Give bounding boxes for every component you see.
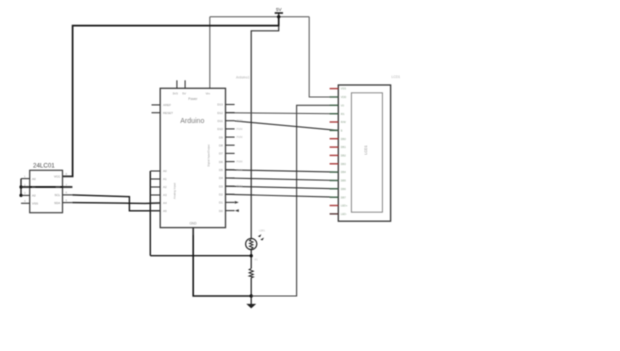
svg-text:VSS: VSS	[341, 87, 346, 91]
wire Arduino D3 to LCD DB6	[226, 186, 339, 189]
svg-text:DB7: DB7	[341, 195, 347, 199]
svg-text:SCL: SCL	[54, 193, 60, 197]
svg-text:A2: A2	[32, 194, 36, 198]
power symbol 5V	[275, 7, 283, 17]
Arduino U2	[160, 88, 225, 227]
svg-text:Arduino1: Arduino1	[236, 76, 250, 80]
resistor R1	[249, 256, 253, 296]
Arduino PWM marks	[237, 120, 243, 189]
LCD pin 15 LED+ (unrouted)	[330, 205, 339, 207]
wire Arduino D11 to LCD E	[235, 121, 339, 130]
svg-text:DB4: DB4	[341, 170, 347, 174]
svg-text:A1: A1	[32, 185, 36, 189]
EEPROM pin A1	[21, 186, 30, 188]
svg-text:DB3: DB3	[341, 162, 347, 166]
Arduino pin 3V3 (top)	[176, 80, 178, 88]
svg-text:E: E	[341, 129, 343, 133]
wire EEPROM SCL to Arduino A5	[72, 195, 160, 211]
junction LDR-resistor node	[250, 254, 253, 257]
svg-text:LCD1: LCD1	[392, 75, 401, 79]
Arduino pin RESET	[152, 112, 161, 114]
wire EEPROM SDA to Arduino A4	[72, 202, 160, 205]
EEPROM pin SCL	[63, 194, 73, 196]
svg-text:A3: A3	[163, 193, 167, 197]
svg-text:WP: WP	[55, 185, 60, 189]
svg-text:Power: Power	[188, 97, 198, 101]
svg-text:DB5: DB5	[341, 179, 347, 183]
svg-text:A4: A4	[163, 201, 167, 205]
svg-text:LDR1: LDR1	[259, 230, 266, 233]
Arduino digital pins D13-D0	[226, 105, 235, 211]
svg-text:DB2: DB2	[341, 154, 347, 158]
svg-text:D6: D6	[219, 160, 223, 164]
svg-text:D8: D8	[219, 143, 223, 147]
svg-text:Arduino: Arduino	[180, 118, 204, 125]
svg-text:D3: D3	[219, 184, 223, 188]
svg-text:3V3: 3V3	[173, 92, 179, 96]
svg-text:D12: D12	[217, 111, 223, 115]
svg-text:VSS: VSS	[32, 202, 38, 206]
svg-text:D11: D11	[218, 119, 224, 123]
EEPROM pin VSS	[21, 202, 30, 204]
wire analog bus A0-A5	[149, 171, 151, 256]
svg-text:PWM: PWM	[237, 161, 243, 164]
svg-text:RESET: RESET	[163, 111, 173, 115]
LCD pin 16 LED-	[330, 213, 339, 215]
LCD pin 12 DB5	[330, 180, 339, 182]
svg-text:D9: D9	[219, 135, 223, 139]
EEPROM pin A2	[21, 194, 30, 196]
LCD pin 3 V0	[330, 104, 339, 106]
LCD1 module	[338, 85, 390, 221]
LCD pin 9 DB2 (unrouted)	[330, 154, 339, 156]
Arduino top pin labels	[173, 92, 211, 96]
wire bus to LDR junction	[150, 255, 251, 257]
svg-text:DB1: DB1	[341, 145, 347, 149]
svg-text:A2: A2	[163, 185, 167, 189]
LCD pin 13 DB6	[330, 188, 339, 190]
wire Arduino D5 to LCD DB4	[226, 170, 339, 172]
svg-text:D2: D2	[219, 193, 223, 197]
svg-text:RS: RS	[341, 112, 345, 116]
LCD pin 4 RS	[330, 113, 339, 115]
svg-text:5V: 5V	[182, 92, 186, 96]
LCD pin 5 RW (unrouted)	[330, 121, 339, 123]
LCD pin labels	[341, 87, 348, 216]
svg-text:D7: D7	[219, 152, 223, 156]
svg-text:LCD1: LCD1	[364, 145, 368, 154]
svg-text:D10: D10	[217, 127, 223, 131]
wire Arduino D12 to LCD RS	[226, 113, 339, 114]
svg-text:D4: D4	[219, 176, 223, 180]
svg-text:DB6: DB6	[341, 187, 347, 191]
junction ground node	[250, 294, 253, 297]
svg-text:D0: D0	[219, 209, 223, 213]
Arduino GND pin (bottom)	[192, 228, 194, 235]
LCD pin 10 DB3 (unrouted)	[330, 163, 339, 165]
svg-text:Digital Input/Output: Digital Input/Output	[206, 144, 210, 166]
wire 5V top rail	[210, 16, 309, 18]
svg-text:PWM: PWM	[237, 185, 243, 188]
EEPROM pin A0	[21, 178, 30, 180]
svg-text:AREF: AREF	[163, 103, 171, 107]
svg-text:A0: A0	[163, 169, 167, 173]
wire EEPROM WP (black)	[21, 186, 72, 188]
svg-text:PWM: PWM	[237, 120, 243, 123]
svg-text:D1: D1	[219, 201, 223, 205]
LCD pin 6 E	[330, 129, 339, 131]
Arduino analog pins A0-A5	[150, 171, 160, 211]
svg-text:V0: V0	[341, 103, 345, 107]
photoresistor LDR1	[246, 234, 264, 256]
LCD pin 7 DB0 (unrouted)	[330, 138, 339, 140]
svg-text:Vin: Vin	[206, 92, 211, 96]
svg-text:D13: D13	[217, 103, 223, 107]
svg-text:A0: A0	[32, 177, 36, 181]
EEPROM U1 24LC01	[30, 162, 63, 212]
EEPROM pin labels	[32, 175, 61, 206]
wire Arduino D4 to LCD DB5	[226, 178, 339, 181]
svg-text:VDD: VDD	[341, 95, 347, 99]
svg-text:R/W: R/W	[341, 120, 347, 124]
svg-text:PWM: PWM	[237, 128, 243, 131]
svg-text:PWM: PWM	[237, 169, 243, 172]
svg-text:SDA: SDA	[54, 201, 60, 205]
svg-text:GND: GND	[189, 221, 197, 225]
Arduino pin 5V (top)	[184, 80, 186, 88]
LCD pin 14 DB7	[330, 196, 339, 198]
junction EEPROM A1	[19, 185, 22, 188]
svg-text:VCC: VCC	[54, 175, 61, 179]
wire 5V to EEPROM VCC	[63, 17, 279, 177]
svg-text:LED-: LED-	[341, 212, 347, 216]
LCD pin 8 DB1 (unrouted)	[330, 146, 339, 148]
junction EEPROM A2	[19, 194, 22, 197]
svg-text:DB0: DB0	[341, 137, 347, 141]
wire 5V to LCD VDD	[309, 17, 338, 97]
svg-text:24LC01: 24LC01	[33, 162, 55, 169]
wire ground rail to LCD V0	[251, 105, 338, 296]
EEPROM pin SDA	[63, 202, 73, 204]
wire Arduino GND to ground rail	[193, 228, 251, 296]
wire EEPROM address bus	[20, 179, 22, 196]
ground symbol	[246, 296, 256, 308]
svg-text:LED+: LED+	[341, 204, 348, 208]
wire 5V to photoresistor	[251, 26, 279, 239]
EEPROM pin numbers	[24, 172, 68, 203]
svg-text:A5: A5	[163, 209, 167, 213]
svg-text:D5: D5	[219, 168, 223, 172]
LCD pin 2 VDD	[330, 96, 339, 98]
LCD pin 1 VSS (unrouted)	[330, 88, 339, 90]
junction 5V node	[277, 15, 280, 18]
EEPROM pin VCC	[63, 175, 73, 177]
wire 5V to Arduino VIN	[209, 17, 211, 89]
LCD pin 11 DB4	[330, 171, 339, 173]
svg-text:5V: 5V	[276, 7, 283, 12]
EEPROM pin WP	[63, 186, 73, 188]
svg-text:A1: A1	[163, 177, 167, 181]
svg-text:Analog Input: Analog Input	[173, 183, 177, 199]
svg-text:PWM: PWM	[237, 136, 243, 139]
Arduino RX arrow D0	[235, 209, 239, 212]
wire Arduino D2 to LCD DB7	[226, 194, 339, 197]
Arduino TX arrow D1	[235, 201, 239, 204]
Arduino pin AREF	[152, 104, 161, 106]
